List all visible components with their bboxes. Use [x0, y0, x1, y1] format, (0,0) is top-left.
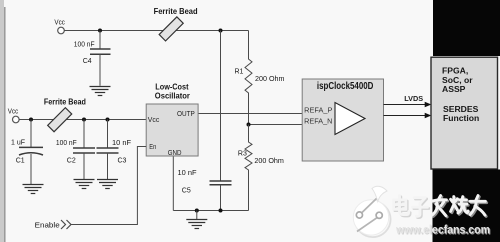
svg-text:C2: C2: [67, 157, 76, 164]
wire REFA_N net: [249, 124, 336, 126]
ground (main, below bus): [186, 211, 207, 229]
svg-text:C1: C1: [16, 157, 25, 164]
watermark text shadow pass: [395, 197, 487, 218]
ferrite bead FB1 (top): [154, 6, 198, 41]
watermark logo (elecfans circle): [353, 186, 390, 237]
ground (below C1): [23, 185, 44, 194]
node Vcc (top terminal): [54, 19, 65, 34]
LVDS output pair: [384, 94, 432, 118]
svg-text:REFA_P: REFA_P: [304, 108, 333, 115]
capacitor C4: [74, 31, 111, 86]
svg-text:Vcc: Vcc: [148, 115, 160, 124]
svg-text:www.elecfans.com: www.elecfans.com: [395, 225, 490, 237]
black mask top-right: [433, 0, 500, 56]
signal Enable: [35, 147, 147, 230]
node junction C4 tap: [98, 29, 102, 33]
svg-text:1 uF: 1 uF: [11, 140, 25, 147]
svg-text:Ferrite Bead: Ferrite Bead: [44, 97, 86, 107]
wire Vcc drop to C5: [220, 31, 222, 182]
node junction C2 tap: [82, 118, 86, 122]
svg-text:OUTP: OUTP: [177, 109, 195, 118]
svg-text:Function: Function: [443, 113, 479, 123]
svg-text:R1: R1: [235, 69, 244, 76]
node junction C3 tap: [106, 118, 110, 122]
node junction R1/R3/REFA_N: [247, 123, 251, 127]
node Vcc (lower terminal): [8, 109, 19, 123]
svg-text:100 nF: 100 nF: [56, 140, 77, 147]
node junction Vcc rail to C5 drop: [219, 29, 223, 33]
svg-text:En: En: [149, 142, 156, 151]
resistor R3: [238, 125, 284, 211]
svg-text:R3: R3: [238, 150, 247, 157]
watermark text main pass: [394, 196, 486, 217]
svg-text:10 nF: 10 nF: [112, 140, 131, 147]
svg-text:ispClock5400D: ispClock5400D: [317, 81, 374, 92]
svg-text:100 nF: 100 nF: [74, 42, 95, 49]
svg-text:Ferrite Bead: Ferrite Bead: [154, 6, 198, 16]
buffer triangle: [335, 103, 365, 135]
block FPGA / SoC / ASSP SERDES Function: [431, 57, 498, 169]
node junction C5 bottom: [219, 209, 223, 213]
ferrite bead FB2 (lower): [44, 97, 86, 132]
capacitor C1 (polarized 1 uF): [11, 120, 43, 185]
wire ground bus (bottom): [173, 210, 248, 212]
svg-text:Vcc: Vcc: [8, 109, 19, 116]
wire top Vcc rail: [64, 30, 248, 32]
svg-text:C5: C5: [182, 188, 191, 195]
wire lower Vcc rail: [19, 119, 146, 121]
node junction ground tap: [195, 209, 199, 213]
svg-text:200 Ohm: 200 Ohm: [255, 76, 285, 83]
svg-text:ASSP: ASSP: [442, 84, 466, 94]
wire Enable to En pin: [71, 147, 146, 225]
svg-text:Oscillator: Oscillator: [155, 90, 191, 100]
IC U2 ispClock5400D: [302, 79, 383, 161]
svg-text:C4: C4: [83, 58, 92, 65]
wire REFA_P net (OUTP to buffer): [198, 113, 335, 115]
svg-text:Vcc: Vcc: [54, 19, 65, 26]
svg-text:Enable: Enable: [35, 221, 60, 230]
black mask bottom-right: [433, 170, 500, 242]
left border line: [4, 7, 6, 242]
svg-text:10 nF: 10 nF: [178, 170, 197, 177]
svg-text:200 Ohm: 200 Ohm: [254, 158, 284, 165]
oscillator U1 Low-Cost Oscillator: [146, 82, 198, 157]
svg-text:REFA_N: REFA_N: [304, 119, 332, 126]
capacitor C3: [97, 120, 132, 180]
resistor R1: [235, 31, 285, 125]
ground (below C3): [97, 180, 118, 189]
ground (below C2): [74, 180, 95, 189]
svg-text:LVDS: LVDS: [404, 94, 423, 103]
capacitor C5: [178, 170, 232, 211]
left border strip: [0, 0, 4, 242]
svg-text:C3: C3: [118, 157, 127, 164]
wire oscillator GND down: [172, 156, 174, 211]
node junction C1 tap: [29, 118, 33, 122]
svg-text:GND: GND: [168, 148, 182, 157]
capacitor C2: [56, 120, 95, 180]
ground (below C4): [90, 87, 111, 96]
